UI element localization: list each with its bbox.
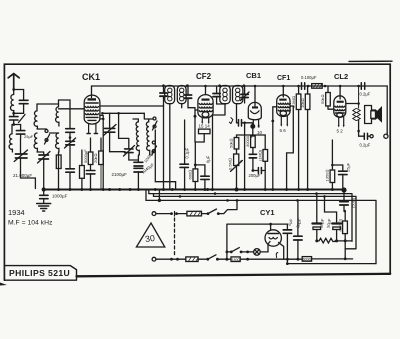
bottom border thick line (77, 274, 391, 277)
tuning capacitor C-ant (15, 154, 27, 158)
svg-text:25µF: 25µF (346, 162, 351, 172)
resistor box 0.1M under CF2 (199, 129, 211, 134)
RF coil column B lower (56, 133, 59, 152)
heater rail 2 (149, 190, 352, 242)
tube CK1 (84, 88, 100, 134)
svg-text:25µF: 25µF (24, 134, 34, 139)
svg-text:50kΩ: 50kΩ (320, 94, 325, 104)
capacitor series rail 0.100uF (297, 85, 300, 88)
resistor 0.3M vertical (296, 94, 301, 110)
IF transformer 2 right box (233, 86, 243, 104)
RF coil column B upper (56, 100, 59, 126)
wire antenna branch (14, 90, 24, 100)
svg-text:5 6: 5 6 (280, 128, 287, 133)
svg-text:1934: 1934 (8, 208, 25, 217)
node antenna junction (12, 88, 15, 91)
wire IFT1 leads down (164, 104, 170, 189)
wire CL2 top (339, 86, 341, 88)
mains terminal bottom (152, 257, 156, 261)
capacitor small series (258, 168, 261, 174)
capacitor 0.2uF bottom with terminals (359, 131, 364, 136)
resistor 1350 vertical right (331, 164, 334, 167)
RF coil bank column A lower (34, 133, 37, 152)
svg-text:1350Ω: 1350Ω (325, 170, 330, 182)
svg-text:6µF: 6µF (205, 155, 210, 163)
tube CB1 (248, 102, 261, 128)
svg-text:600Ω: 600Ω (188, 170, 193, 180)
capacitor 2100uF (134, 162, 143, 166)
corner wedge bottom left (0, 283, 7, 286)
oscillator grid wire (102, 113, 144, 138)
resistor 50k vertical (234, 138, 239, 150)
smudge line top right (349, 60, 392, 62)
svg-text:2100µF: 2100µF (112, 172, 128, 177)
resistor 30000 vertical (251, 136, 256, 148)
resistor box 600 vertical (193, 169, 198, 182)
wire (13, 120, 15, 125)
tube CF1 (277, 90, 291, 127)
svg-text:150Ω: 150Ω (232, 258, 241, 262)
svg-text:0.2µF: 0.2µF (360, 143, 371, 148)
tube CF2 (198, 95, 213, 124)
heater rail 3 (154, 194, 357, 249)
svg-text:(50Ω): (50Ω) (351, 197, 356, 208)
resistor box 0.1M vertical (80, 166, 85, 179)
svg-text:5000µF: 5000µF (83, 149, 88, 163)
trimmer capacitor osc (109, 113, 111, 128)
svg-text:1000µF: 1000µF (52, 194, 68, 199)
output transformer zigzag (357, 86, 360, 121)
svg-text:5 2: 5 2 (337, 129, 344, 134)
lamp row (226, 251, 229, 254)
svg-text:(1MΩ): (1MΩ) (258, 149, 263, 161)
svg-text:15 14: 15 14 (199, 124, 211, 129)
svg-text:CB1: CB1 (246, 71, 261, 80)
svg-text:0.2µF: 0.2µF (360, 92, 371, 97)
trimmer arrow mid (229, 118, 233, 124)
padder capacitor (125, 149, 133, 153)
PHILIPS 521U box (5, 266, 77, 281)
capacitor 25uF right (332, 165, 342, 190)
wire CF1 anode right (287, 106, 294, 189)
svg-text:PHILIPS 521U: PHILIPS 521U (9, 268, 70, 278)
potentiometer 0.5M (234, 154, 239, 166)
trimmer arrow (38, 152, 51, 164)
svg-text:0.3MΩ: 0.3MΩ (291, 96, 296, 108)
mains terminal top (152, 212, 156, 216)
resistor 150 vertical filter (343, 221, 348, 234)
lamp loop (227, 224, 271, 259)
node (12, 112, 15, 115)
svg-text:0.100µF: 0.100µF (301, 75, 317, 80)
fuse box top (177, 213, 187, 215)
IFT1 left capacitor (163, 85, 165, 105)
heater rail 4 (146, 190, 376, 264)
resistor box 150 bottom (231, 257, 240, 262)
ground capacitor 1000uF (40, 195, 48, 198)
switch bottom (206, 258, 209, 261)
triangle 30 (136, 223, 164, 247)
fuse box bottom (186, 257, 198, 262)
svg-text:CK1: CK1 (82, 72, 100, 82)
capacitor 80uF filter (316, 194, 318, 241)
svg-text:CY1: CY1 (260, 208, 275, 217)
capacitor 50uF filter2 (325, 196, 337, 241)
oscillator coil right winding (146, 119, 149, 155)
long verticals to bus (273, 107, 277, 189)
trimmer arrow (19, 115, 26, 123)
resistor box 600 bottom (302, 257, 311, 262)
bottom far rail (287, 263, 376, 265)
capacitor 6uF filter (286, 224, 288, 259)
wire (156, 213, 171, 215)
svg-text:CL2: CL2 (334, 72, 348, 81)
capacitor padder lower (134, 168, 143, 172)
capacitor 0.1uF mid (184, 120, 186, 189)
capacitor 0.2uF top right (357, 85, 360, 88)
tube CL2 (334, 88, 346, 128)
capacitor 25uF branch (14, 125, 21, 139)
dashed mechanical link (174, 212, 176, 217)
wire top link A-B (37, 100, 70, 133)
wire CK1 top cap to rail (91, 86, 93, 88)
top rail (92, 85, 388, 87)
svg-text:M.F = 104 kHz: M.F = 104 kHz (8, 220, 53, 227)
svg-text:30: 30 (144, 233, 155, 244)
IF transformer 2 left box (220, 86, 230, 104)
capacitor series trimmer (10, 117, 19, 120)
svg-text:0.5MΩ: 0.5MΩ (227, 158, 232, 170)
switch top (207, 212, 210, 215)
pilot lamp (254, 249, 261, 256)
capacitor stack left second (66, 141, 75, 145)
resistor 10k vertical (305, 94, 310, 110)
svg-text:21.000µF: 21.000µF (13, 173, 32, 178)
wire down to bus (21, 138, 36, 189)
oscillator coil left winding (136, 119, 139, 155)
resistor box rail horizontal (312, 84, 323, 89)
wire (37, 152, 59, 189)
svg-text:10kΩ: 10kΩ (300, 98, 305, 108)
resistor grid CL2 vertical (326, 93, 331, 107)
ground (37, 204, 51, 212)
wire CB1 top (254, 86, 256, 106)
tuning gang capacitor A (39, 155, 49, 159)
tube CY1 (265, 230, 284, 259)
capacitor 6uF mid (201, 176, 209, 179)
capacitor bottom B (66, 169, 75, 172)
svg-text:30000: 30000 (245, 135, 250, 147)
svg-text:10: 10 (257, 130, 263, 135)
svg-text:20kΩ: 20kΩ (93, 153, 98, 163)
RF coil bank column A upper (34, 104, 37, 129)
wire cap lead (14, 104, 24, 116)
capacitor stack left (69, 104, 71, 128)
osc switch contacts (152, 141, 155, 144)
switch contacts left of CF2 (153, 117, 156, 120)
capacitor antenna series (19, 100, 28, 103)
trimmer arrow (14, 150, 27, 162)
IFT2 right trimmer capacitor (244, 86, 246, 103)
components under CK1 : capacitor 5000uF (90, 138, 92, 152)
antenna (8, 74, 19, 90)
wire CL2 anode right (346, 103, 359, 105)
wire CF2 anode up (205, 86, 207, 95)
IFT1 right capacitor (187, 85, 189, 103)
schematic border frame (4, 64, 390, 280)
svg-text:0.1µF: 0.1µF (185, 147, 190, 158)
wire IFT2 leads down (213, 104, 226, 189)
svg-text:CF2: CF2 (196, 72, 212, 81)
capacitor series CB1 diode (237, 122, 238, 124)
capacitor under bus blob (343, 190, 345, 201)
wire CF1 top (282, 86, 284, 90)
coil L2 antenna lower (9, 125, 12, 153)
zigzag resistor bottom (317, 238, 335, 243)
heater hook (276, 253, 278, 258)
svg-text:(150Ω): (150Ω) (337, 218, 342, 231)
resistor 20k under CK1 (100, 138, 102, 151)
wire right edge down (386, 86, 388, 133)
wire grid CF2 (195, 108, 198, 117)
resistor box 20k vertical (56, 155, 61, 169)
svg-text:50kΩ: 50kΩ (229, 138, 234, 148)
capacitor 50uF filter (297, 200, 299, 259)
wire osc coil top (133, 113, 153, 119)
coil L1 antenna (10, 95, 13, 111)
wire CK1 anode right (100, 105, 164, 107)
IFT2 left capacitor (216, 86, 218, 104)
wire CY1 top (270, 224, 272, 230)
wire IFT2 right to bus (244, 123, 246, 189)
IF transformer 1 left box (165, 86, 175, 104)
bus junction dots (42, 187, 347, 192)
capacitor 200uF (249, 154, 256, 158)
svg-text:600Ω: 600Ω (303, 258, 312, 262)
wire CK1 grid left (59, 108, 85, 110)
speaker (365, 106, 382, 124)
IF transformer 1 right box (177, 86, 186, 104)
band switch contacts (45, 130, 48, 133)
svg-text:CF1: CF1 (277, 75, 290, 82)
resistor 1M vertical (263, 150, 268, 162)
main bus thick (44, 188, 344, 190)
node (12, 123, 15, 126)
